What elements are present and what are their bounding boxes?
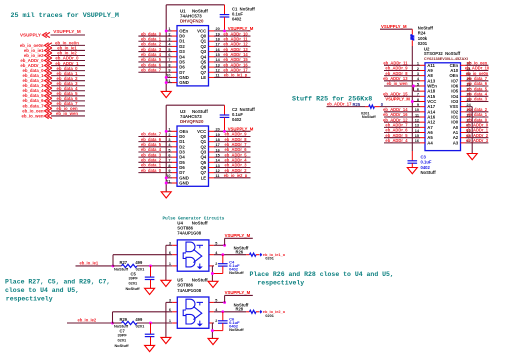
wire pin top: [166, 244, 172, 246]
U2 pin 1 A11: [420, 64, 425, 66]
U5 gate symbol: [183, 299, 203, 326]
svg-text:R24: R24: [418, 31, 426, 36]
svg-text:VSUPPLY_M: VSUPPLY_M: [225, 233, 251, 238]
wire eb_io_oen: [466, 64, 489, 66]
resistor R29: [122, 321, 138, 324]
svg-text:eb_io_wen: eb_io_wen: [56, 111, 78, 116]
wire VCC loop top: [166, 104, 224, 106]
svg-text:R26: R26: [236, 249, 244, 254]
wire eb_ADDr_13: [209, 51, 215, 53]
svg-text:1: 1: [169, 319, 171, 323]
wire pin5 to rail: [214, 244, 225, 246]
svg-text:eb_io_ie1_o: eb_io_ie1_o: [263, 252, 286, 257]
U2 pin 14 A6: [420, 132, 425, 134]
svg-text:9: 9: [168, 69, 170, 73]
wire VCC rail U2: [411, 46, 413, 151]
svg-text:0201: 0201: [136, 323, 145, 328]
svg-text:19: 19: [216, 32, 220, 36]
resistor R24 lead top: [411, 29, 413, 35]
U2 pin 8 VCC: [420, 100, 425, 102]
wire eb_ADDr_8: [209, 141, 215, 143]
wire eb_data_2: [138, 45, 172, 47]
wire R27 to gate: [137, 265, 172, 267]
wire eb_io_ie1: [51, 49, 85, 51]
svg-text:NoStuff: NoStuff: [126, 286, 141, 291]
svg-text:20: 20: [216, 27, 220, 31]
resistor R27 lead: [113, 265, 122, 267]
svg-text:13: 13: [216, 63, 220, 67]
wire eb_data_0: [138, 35, 172, 37]
svg-text:VSUPPLY_M: VSUPPLY_M: [53, 29, 81, 34]
wire eb_ADDr_0: [466, 126, 489, 128]
U2 pin 17 A3: [461, 142, 466, 144]
IC U1 74AHC573 body: [177, 26, 209, 86]
wire eb_ADDr_15: [384, 95, 420, 97]
wire eb_data_5: [138, 61, 172, 63]
svg-text:Stuff R25 for 256Kx8: Stuff R25 for 256Kx8: [292, 95, 372, 103]
port out marker: [260, 253, 263, 257]
U3 pin 20 VCC wire: [209, 130, 215, 132]
U2 pin 24 VSS: [461, 106, 466, 108]
svg-text:eb_io_wen: eb_io_wen: [387, 81, 408, 86]
U2 pin 2 A9: [420, 69, 425, 71]
junction U1 OEn rail: [165, 29, 168, 32]
wire eb_data_2: [51, 80, 85, 82]
junction input node: [112, 264, 115, 267]
junction output cap: [221, 310, 224, 313]
wire eb_data_4: [466, 95, 489, 97]
svg-text:12: 12: [216, 169, 220, 173]
U4 gate symbol: [183, 242, 203, 269]
U2 pin 29 IO7: [461, 80, 466, 82]
wire eb_ADDr_3: [466, 142, 489, 144]
svg-text:A4: A4: [427, 140, 433, 145]
resistor R24 lead bottom: [411, 40, 413, 46]
wire eb_ADDr_8: [384, 75, 420, 77]
U2 pin 25 IO3: [461, 100, 466, 102]
wire eb_ADDr_0: [51, 60, 85, 62]
wire pin4 out: [214, 254, 246, 256]
svg-text:VSUPPLY_M: VSUPPLY_M: [381, 24, 407, 29]
wire eb_ADDr_9: [209, 135, 215, 137]
wire eb_ADDr_2: [466, 137, 489, 139]
svg-text:eb_io_ie2_p: eb_io_ie2_p: [224, 173, 248, 178]
U2 pin 15 A5: [420, 137, 425, 139]
svg-text:close to U4 and U5,: close to U4 and U5,: [5, 287, 79, 294]
svg-text:5: 5: [168, 148, 170, 152]
wire VSUPPLY top: [380, 28, 412, 30]
ground U1: [161, 91, 171, 97]
wire eb_data_5: [51, 95, 85, 97]
resistor R26: [250, 253, 257, 256]
wire pin2 down: [211, 266, 213, 281]
wire eb_data_7: [466, 80, 489, 82]
U2 pin 27 IO5: [461, 90, 466, 92]
resistor R26 lead right: [256, 254, 259, 256]
capacitor C1 lead lower: [224, 17, 226, 31]
wire input eb_io_ie2: [67, 322, 113, 324]
wire eb_ADDr_15: [209, 61, 215, 63]
wire eb_ADDr_14: [384, 111, 420, 113]
svg-text:0201: 0201: [136, 266, 145, 271]
IC U3 74AHC573 body: [177, 126, 209, 186]
wire VCC rail left: [165, 5, 167, 92]
svg-text:17: 17: [216, 43, 220, 47]
svg-text:NoStuff: NoStuff: [362, 115, 376, 119]
resistor R25: [369, 105, 375, 108]
svg-text:respectively: respectively: [6, 295, 53, 302]
wire input eb_io_ie1: [76, 265, 114, 267]
wire eb_data_6: [51, 100, 85, 102]
junction U3 GND2 rail: [165, 182, 168, 185]
U1 pin 10 GND: [172, 76, 177, 78]
wire VSS down: [471, 107, 473, 154]
wire eb_data_0: [138, 172, 172, 174]
svg-text:eb_data_0: eb_data_0: [141, 168, 162, 173]
junction VCC rail: [411, 100, 414, 103]
svg-text:VSUPPLY_M: VSUPPLY_M: [385, 97, 410, 102]
ground U4 pin2: [208, 281, 218, 287]
wire eb_ADDr_6: [384, 132, 420, 134]
wire eb_ADDr_16: [209, 66, 215, 68]
wire eb_ADDr_11: [384, 64, 420, 66]
svg-text:2: 2: [168, 133, 170, 137]
svg-text:1: 1: [169, 262, 171, 266]
capacitor C1 lead: [224, 5, 226, 15]
ground U3: [161, 192, 171, 198]
resistor R29 lead: [113, 322, 122, 324]
wire eb_data_4: [138, 151, 172, 153]
svg-text:A3: A3: [453, 140, 459, 145]
svg-text:74AUP1G08: 74AUP1G08: [177, 288, 201, 293]
junction C1 VCC: [223, 29, 226, 32]
ground U2 VSS: [467, 154, 477, 160]
svg-text:STSOP32 NoStuff: STSOP32 NoStuff: [424, 51, 461, 56]
svg-text:499: 499: [135, 317, 143, 322]
svg-text:eb_io_ie1_p: eb_io_ie1_p: [224, 73, 248, 78]
wire eb_ADDr_10: [209, 35, 215, 37]
wire VSUPPLY vertical: [224, 295, 226, 302]
capacitor C7 lead: [150, 323, 152, 334]
capacitor C4 lead: [222, 255, 224, 264]
wire eb_ADDr_5: [209, 156, 215, 158]
resistor R24: [410, 35, 414, 41]
svg-text:17: 17: [216, 143, 220, 147]
U2 pin 13 A7: [420, 126, 425, 128]
wire eb_data_2: [138, 161, 172, 163]
svg-text:NoStuff: NoStuff: [229, 270, 244, 275]
ground U5 input: [161, 337, 171, 343]
wire eb_ADDr_9: [384, 69, 420, 71]
wire eb_ADDr_1: [51, 65, 85, 67]
svg-text:GND: GND: [179, 181, 189, 186]
resistor R26 lead left: [246, 254, 249, 256]
svg-text:VSUPPLY_M: VSUPPLY_M: [225, 290, 251, 295]
U3 pin 21 GND: [172, 182, 177, 184]
wire eb_ADDr_17: [209, 71, 215, 73]
U2 pin 10 A14: [420, 111, 425, 113]
capacitor C5 lower lead: [150, 280, 152, 289]
U2 pin 31 A10: [461, 69, 466, 71]
wire VSS: [466, 106, 473, 108]
wire A18: [414, 90, 421, 92]
svg-text:16: 16: [216, 148, 220, 152]
svg-text:eb_ADDr_3: eb_ADDr_3: [466, 138, 489, 143]
U2 pin 18 A2: [461, 137, 466, 139]
U2 pin 16 A4: [420, 142, 425, 144]
wire pin4 out: [214, 311, 246, 313]
svg-text:7: 7: [168, 58, 170, 62]
U2 pin 26 IO4: [461, 95, 466, 97]
U2 pin 28 IO6: [461, 85, 466, 87]
svg-text:0402: 0402: [232, 117, 242, 122]
svg-text:8: 8: [168, 63, 170, 67]
U2 pin 22 IO1: [461, 116, 466, 118]
junction C2 VCC: [223, 130, 226, 133]
svg-text:0201: 0201: [129, 281, 138, 286]
capacitor C7 lower lead: [150, 337, 152, 346]
svg-text:GND: GND: [179, 80, 189, 85]
resistor R27: [122, 264, 138, 267]
U2 pin 11 A16: [420, 116, 425, 118]
svg-text:7: 7: [168, 159, 170, 163]
junction U3 OEn rail: [165, 130, 168, 133]
svg-text:3: 3: [169, 299, 171, 303]
U2 pin 3 A8: [420, 75, 425, 77]
wire VCC loop top: [166, 4, 224, 6]
junction VSUPPLY: [223, 301, 226, 304]
svg-text:LE: LE: [201, 175, 207, 180]
ground C5: [145, 288, 155, 294]
wire eb_ADDr_10: [466, 69, 489, 71]
wire A17 right: [380, 106, 420, 108]
wire eb_data_5: [466, 90, 489, 92]
wire VCC rail left: [165, 105, 167, 192]
U2 pin 32 CEn: [461, 64, 466, 66]
svg-text:3: 3: [169, 242, 171, 246]
junction U1 GND1 rail: [165, 76, 168, 79]
svg-text:9: 9: [168, 169, 170, 173]
svg-text:3: 3: [168, 138, 170, 142]
wire eb_ADDr_4: [384, 142, 420, 144]
wire eb_data_1: [466, 116, 489, 118]
junction RC node: [149, 322, 152, 325]
U1 pin 1 OEn: [172, 30, 178, 32]
U5 pin stubs: [172, 301, 177, 303]
svg-text:20: 20: [216, 128, 220, 132]
wire A18 link vertical: [413, 86, 415, 91]
svg-text:R29: R29: [119, 317, 127, 322]
wire eb_data_3: [138, 156, 172, 158]
svg-text:5: 5: [168, 48, 170, 52]
wire feedback up: [112, 255, 114, 266]
wire eb_io_oe0n: [466, 75, 489, 77]
wire eb_io_wen: [384, 85, 420, 87]
capacitor C5: [145, 276, 155, 278]
svg-text:NoStuff: NoStuff: [192, 221, 208, 226]
wire eb_io_wen: [51, 115, 85, 117]
svg-text:NoStuff: NoStuff: [115, 343, 130, 348]
U1 pin 20 VCC wire: [209, 30, 215, 32]
U2 pin 23 IO2: [461, 111, 466, 113]
svg-text:18: 18: [216, 138, 220, 142]
wire VSUPPLY: [51, 34, 86, 36]
svg-text:eb_ADDr_4: eb_ADDr_4: [385, 138, 408, 143]
wire VSUPPLY horizontal: [225, 294, 253, 296]
svg-text:0402: 0402: [232, 17, 242, 22]
wire eb_ADDr_7: [209, 146, 215, 148]
junction output cap: [221, 253, 224, 256]
port out marker: [260, 310, 263, 314]
wire eb_data_2: [466, 111, 489, 113]
U2 pin 20 A0: [461, 126, 466, 128]
svg-text:Place R27, C5, and R29, C7,: Place R27, C5, and R29, C7,: [5, 279, 110, 286]
wire VSUPPLY horizontal: [225, 237, 253, 239]
ground C3: [407, 168, 417, 174]
svg-text:16: 16: [216, 48, 220, 52]
wire eb_data_6: [138, 141, 172, 143]
wire eb_ADDr_16: [384, 116, 420, 118]
U2 pin 9 A17: [420, 106, 425, 108]
U2 pin 12 A12: [420, 121, 425, 123]
svg-text:CY62138EV30LL-45ZAXI: CY62138EV30LL-45ZAXI: [424, 57, 468, 61]
svg-text:Place R26 and R28 close to U4: Place R26 and R28 close to U4 and U5,: [250, 271, 394, 278]
svg-text:0201: 0201: [118, 338, 127, 343]
wire eb_ADDr_12: [384, 121, 420, 123]
wire A17 left: [327, 106, 366, 108]
IC U5 AND gate body: [177, 297, 209, 328]
svg-text:0201: 0201: [265, 314, 273, 318]
svg-text:11: 11: [216, 174, 220, 178]
wire eb_ADDr_4: [209, 161, 215, 163]
svg-text:0: 0: [381, 102, 384, 107]
U2 pin 19 A1: [461, 132, 466, 134]
svg-text:15: 15: [216, 53, 220, 57]
svg-text:499: 499: [135, 260, 143, 265]
IC U4 AND gate body: [177, 240, 209, 271]
wire feedback up: [112, 312, 114, 323]
wire pin2 down: [211, 323, 213, 338]
capacitor C5 lead: [150, 266, 152, 277]
wire eb_io_oen: [51, 110, 85, 112]
svg-text:2: 2: [215, 319, 217, 323]
wire eb_io_oe0n: [51, 44, 85, 46]
capacitor C3: [408, 160, 418, 162]
U1 pin 11 LE wire: [209, 76, 215, 78]
svg-text:2: 2: [168, 32, 170, 36]
U2 pin 7 A15: [420, 95, 425, 97]
wire eb_data_6: [466, 85, 489, 87]
svg-text:74AUP1G08: 74AUP1G08: [177, 231, 201, 236]
capacitor C4 lower lead: [222, 266, 224, 273]
junction gnd node: [211, 272, 214, 275]
wire pin top: [166, 301, 172, 303]
capacitor C3 lower lead: [411, 163, 413, 167]
svg-text:11: 11: [216, 74, 220, 78]
junction WEn A18: [412, 85, 415, 88]
svg-text:DHVQFN20: DHVQFN20: [180, 19, 204, 24]
wire eb_data_0: [51, 70, 85, 72]
ground C7: [145, 345, 155, 351]
svg-text:NoStuff: NoStuff: [114, 266, 129, 271]
wire eb_data_5: [138, 146, 172, 148]
svg-text:8: 8: [168, 164, 170, 168]
capacitor C4 bend: [212, 273, 222, 275]
capacitor C2: [220, 114, 230, 116]
resistor R28 lead right: [256, 311, 259, 313]
svg-text:eb_io_wen: eb_io_wen: [22, 113, 44, 118]
wire eb_ADDr_11: [209, 40, 215, 42]
wire eb_ADDr_7: [384, 126, 420, 128]
wire eb_io_ie2: [51, 54, 85, 56]
wire pin5 to rail: [214, 301, 225, 303]
svg-text:12: 12: [216, 69, 220, 73]
junction gnd node: [211, 329, 214, 332]
capacitor C6: [218, 320, 228, 322]
svg-text:19: 19: [216, 133, 220, 137]
svg-text:eb_io_ie2: eb_io_ie2: [78, 318, 97, 323]
capacitor C7: [145, 333, 155, 335]
U3 pin 1 OEn: [172, 130, 178, 132]
svg-text:NoStuff: NoStuff: [418, 25, 434, 30]
svg-text:DHVQFN20: DHVQFN20: [180, 119, 204, 124]
svg-text:respectively: respectively: [257, 279, 304, 286]
wire eb_data_3: [138, 51, 172, 53]
IC U2 CY62138 body: [425, 63, 461, 151]
wire eb_ADDr_6: [209, 151, 215, 153]
wire VSUPPLY vertical: [224, 238, 226, 245]
U3 pin 11 LE wire: [209, 177, 215, 179]
junction RC node: [149, 264, 152, 267]
svg-text:25 mil traces for VSUPPLY_M: 25 mil traces for VSUPPLY_M: [11, 12, 119, 20]
capacitor C3 upper lead: [411, 151, 413, 161]
wire eb_data_3: [466, 100, 489, 102]
capacitor C6 lower lead: [222, 323, 224, 330]
svg-text:NoStuff: NoStuff: [229, 327, 244, 332]
svg-text:1: 1: [168, 128, 170, 132]
svg-text:VSUPPLY: VSUPPLY: [20, 33, 41, 38]
svg-text:eb_io_ie1: eb_io_ie1: [80, 261, 99, 266]
U2 pin 21 IO0: [461, 121, 466, 123]
wire eb_ADDr_13: [384, 80, 420, 82]
wire eb_data_7: [51, 105, 85, 107]
svg-text:NoStuff: NoStuff: [192, 278, 208, 283]
wire eb_ADDr_2: [209, 172, 215, 174]
wire eb_ADDr_1: [466, 132, 489, 134]
resistor R28: [250, 310, 257, 313]
svg-text:2: 2: [215, 262, 217, 266]
wire eb_data_7: [138, 135, 172, 137]
resistor R25 lead left: [365, 106, 368, 108]
wire eb_data_1: [138, 166, 172, 168]
svg-text:eb_data_3: eb_data_3: [467, 97, 488, 102]
U1 pin 21 GND: [172, 82, 177, 84]
svg-text:100k: 100k: [418, 36, 428, 41]
wire R29 to gate: [137, 322, 172, 324]
wire eb_ADDr_12: [209, 45, 215, 47]
wire eb_ADDr_3: [209, 166, 215, 168]
ground U4 input: [161, 280, 171, 286]
svg-text:R28: R28: [236, 307, 244, 312]
svg-text:LE: LE: [201, 75, 207, 80]
wire eb_data_1: [138, 40, 172, 42]
capacitor C6 lead: [222, 312, 224, 321]
U2 pin 4 A13: [420, 80, 425, 82]
wire gate input tie: [165, 302, 167, 337]
svg-text:6: 6: [168, 153, 170, 157]
svg-text:eb_data_7: eb_data_7: [141, 67, 162, 72]
U2 pin 6 A18: [420, 90, 425, 92]
